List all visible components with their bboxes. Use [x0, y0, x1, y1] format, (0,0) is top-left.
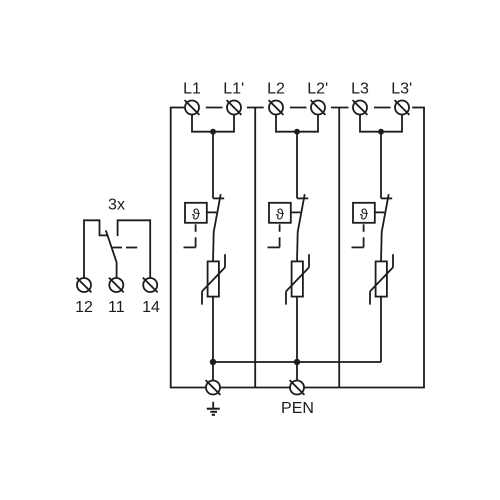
terminal L1' — [227, 100, 242, 115]
dashed link L2 to L2' — [290, 107, 307, 109]
enclosure top edge segment 1 — [170, 107, 184, 109]
cell divider 1 — [254, 108, 256, 388]
node bus-PEN junction — [294, 359, 300, 365]
thermal element box U3 — [353, 203, 375, 223]
terminal 11 — [109, 278, 124, 293]
varistor RV3 — [370, 254, 393, 304]
wire varistor 2 to bus — [296, 297, 298, 362]
aux mechanical link dashes — [113, 247, 138, 249]
svg-text:PEN: PEN — [281, 400, 314, 417]
node L1 junction — [210, 129, 216, 135]
wire node to disconnect switch 1 — [212, 132, 214, 199]
wire node to disconnect switch 2 — [296, 132, 298, 199]
terminal L1 — [185, 100, 200, 115]
ground symbol — [207, 402, 220, 415]
svg-text:L3: L3 — [351, 81, 369, 98]
svg-text:ϑ: ϑ — [192, 206, 201, 223]
wire thermal box 2 to blade — [291, 211, 301, 213]
wire L2/L2' to node — [276, 115, 318, 132]
wire L1/L1' to node — [192, 115, 234, 132]
terminal 14 — [143, 278, 158, 293]
svg-text:ϑ: ϑ — [360, 206, 369, 223]
dashed link L1 to L1' — [206, 107, 223, 109]
disconnect switch contact tick 2 — [297, 197, 308, 199]
node L2 junction — [294, 129, 300, 135]
svg-text:14: 14 — [142, 299, 160, 316]
thermal element box U1 — [185, 203, 207, 223]
enclosure right edge — [423, 108, 425, 388]
svg-text:ϑ: ϑ — [276, 206, 285, 223]
node L3 junction — [378, 129, 384, 135]
enclosure top edge segment 2 — [247, 107, 264, 109]
ground terminal — [206, 380, 221, 395]
disconnect switch contact tick 1 — [213, 197, 224, 199]
terminal 12 — [77, 278, 92, 293]
disconnect switch blade 3 — [381, 194, 389, 261]
svg-text:11: 11 — [108, 299, 125, 316]
enclosure bottom edge segment 2 — [220, 387, 289, 389]
terminal L3' — [395, 100, 410, 115]
varistor RV2 — [286, 254, 309, 304]
varistor RV1 — [202, 254, 225, 304]
dashed link L3 to L3' — [374, 107, 391, 109]
enclosure top edge segment 3 — [331, 107, 348, 109]
wire varistor 3 to bus — [380, 297, 382, 362]
svg-text:3x: 3x — [108, 197, 125, 214]
terminal L2' — [311, 100, 326, 115]
aux contact wire 12 rail — [84, 220, 108, 278]
node bus-ground junction — [210, 359, 216, 365]
disconnect switch blade 1 — [213, 194, 221, 261]
svg-text:L1': L1' — [223, 81, 244, 98]
wire bus to ground terminal — [212, 362, 214, 381]
svg-text:12: 12 — [75, 299, 93, 316]
disconnect switch blade 2 — [297, 194, 305, 261]
enclosure left edge — [170, 108, 172, 388]
enclosure top edge segment 4 — [412, 107, 425, 109]
bus wire — [213, 361, 381, 363]
svg-text:L1: L1 — [183, 81, 201, 98]
svg-text:L3': L3' — [391, 81, 412, 98]
thermal element box U2 — [269, 203, 291, 223]
wire thermal box 3 to blade — [375, 211, 385, 213]
wire thermal box 1 to blade — [207, 211, 217, 213]
wire node to disconnect switch 3 — [380, 132, 382, 199]
wire L3/L3' to node — [360, 115, 402, 132]
terminal PEN — [290, 380, 305, 395]
mechanical link dashes 1 — [184, 224, 196, 247]
svg-text:L2: L2 — [267, 81, 285, 98]
terminal L2 — [269, 100, 284, 115]
aux contact wire 14 rail — [118, 220, 151, 278]
aux contact blade — [106, 230, 117, 278]
enclosure bottom edge segment 1 — [170, 387, 206, 389]
terminal L3 — [353, 100, 368, 115]
disconnect switch contact tick 3 — [381, 197, 392, 199]
wire varistor 1 to bus — [212, 297, 214, 362]
wire bus to PEN terminal — [296, 362, 298, 381]
svg-text:L2': L2' — [307, 81, 328, 98]
enclosure bottom edge segment 3 — [304, 387, 425, 389]
mechanical link dashes 3 — [352, 224, 364, 247]
cell divider 2 — [338, 108, 340, 388]
mechanical link dashes 2 — [268, 224, 280, 247]
